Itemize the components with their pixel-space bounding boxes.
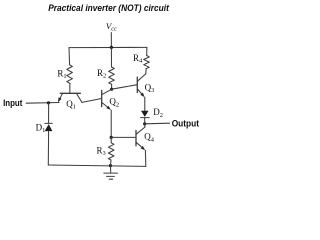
wire Q3 emitter to D2 <box>144 97 146 111</box>
wire D1 to ground rail <box>47 131 49 165</box>
diode D2 <box>141 111 150 118</box>
wire output <box>145 122 170 125</box>
transistor Q3 <box>137 74 145 97</box>
title <box>48 3 170 13</box>
wire Q4 collector to output node <box>144 124 146 127</box>
label Q1 <box>66 99 76 111</box>
wire Q1 collector to Q2 base <box>82 99 102 103</box>
resistor R2 <box>109 67 115 84</box>
label D2 <box>153 107 163 119</box>
wire input <box>26 102 59 105</box>
resistor R1 <box>67 65 73 84</box>
node ground junction <box>109 164 112 167</box>
wire D2 to output node <box>144 118 146 124</box>
label D1 <box>36 122 46 134</box>
wire Q2 collector to Q3 base <box>112 85 138 90</box>
wire D1 top <box>48 103 50 123</box>
node output junction <box>143 122 146 125</box>
wire R2 bottom <box>111 84 113 89</box>
wire top rail <box>69 46 147 48</box>
wire to Q4 base <box>111 136 136 138</box>
svg-text:Practical inverter (NOT) circu: Practical inverter (NOT) circuit <box>48 3 170 13</box>
wire R2 top <box>110 47 112 67</box>
resistor R3 <box>108 137 114 165</box>
wire R1 top <box>68 48 71 65</box>
label Q3 <box>145 82 155 94</box>
node input D1 junction <box>47 101 50 104</box>
transistor Q1 <box>58 93 82 102</box>
label Q2 <box>109 97 119 109</box>
node Q2 collector junction <box>110 88 113 91</box>
wire R4 top <box>146 47 148 55</box>
label Q4 <box>144 132 155 144</box>
wire Vcc stub <box>110 33 112 48</box>
svg-text:Output: Output <box>172 119 199 129</box>
wire R4 to Q3 collector <box>145 69 148 74</box>
transistor Q2 <box>102 89 112 110</box>
wire bottom rail <box>48 165 146 166</box>
label R4 <box>133 53 143 65</box>
transistor Q4 <box>136 127 145 150</box>
label R2 <box>97 68 106 80</box>
resistor R4 <box>144 56 150 69</box>
label R3 <box>97 145 106 157</box>
svg-text:Input: Input <box>3 98 22 108</box>
wire R1 to Q1 base <box>69 83 71 92</box>
node splitter emitter junction <box>110 136 113 139</box>
wire Q4 emitter down <box>144 150 146 166</box>
ground <box>104 166 118 180</box>
label Output <box>172 119 199 129</box>
label Input <box>3 98 22 108</box>
label R1 <box>57 68 66 80</box>
wire Q2 emitter down <box>110 110 112 137</box>
node Vcc rail junction <box>110 46 113 49</box>
diode D1 <box>45 123 53 131</box>
power label Vcc <box>106 21 117 32</box>
